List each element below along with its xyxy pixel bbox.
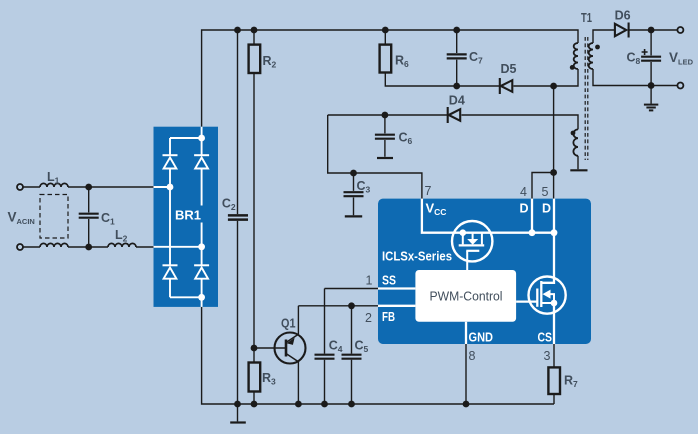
BR1 internals	[154, 127, 210, 307]
svg-text:D: D	[542, 202, 551, 216]
svg-text:SS: SS	[382, 274, 396, 288]
svg-text:GND: GND	[469, 331, 494, 345]
diode D5	[500, 78, 554, 94]
svg-text:3: 3	[544, 349, 551, 363]
node BR1 minus	[198, 294, 205, 301]
node Q1 emitter bottom	[295, 401, 302, 408]
BR1 label	[173, 206, 204, 223]
transformer T1 primary	[554, 43, 578, 86]
node C3 top	[350, 170, 357, 177]
node pin4 bus	[529, 229, 536, 236]
node C2 bottom	[234, 401, 241, 408]
IC internal white wiring	[378, 199, 554, 344]
wire BR1 AC1 stub	[154, 186, 171, 188]
capacitor C7	[447, 30, 467, 86]
node Q1 base	[251, 345, 258, 352]
inductor L1 second winding	[40, 243, 68, 247]
wire GND pin	[465, 344, 467, 404]
svg-text:FB: FB	[382, 310, 395, 324]
capacitor C6	[375, 115, 395, 158]
wire BR1 top connector	[170, 137, 202, 139]
ground C8	[644, 86, 658, 111]
wire drain vertical	[553, 86, 555, 199]
diode BR1 top-left	[163, 155, 178, 168]
wire SS internal	[378, 287, 415, 289]
diode D4	[448, 107, 461, 123]
node C6 top	[382, 112, 389, 119]
svg-text:4: 4	[520, 185, 527, 199]
wire VCC loop	[328, 115, 422, 199]
svg-text:D6: D6	[615, 9, 631, 23]
terminal VLED plus	[677, 27, 683, 33]
transformer T1 auxiliary winding	[573, 129, 578, 169]
transistor Q1	[254, 306, 306, 404]
node C1 top	[85, 184, 92, 191]
wire CS pin	[553, 344, 555, 404]
svg-text:PWM-Control: PWM-Control	[430, 289, 503, 304]
svg-text:7: 7	[425, 184, 432, 198]
svg-text:CS: CS	[538, 331, 553, 345]
bridge rectifier BR1 box	[154, 127, 219, 307]
svg-text:2: 2	[365, 311, 372, 325]
node R3 bottom	[251, 401, 258, 408]
svg-text:D: D	[520, 202, 529, 216]
node R6 top	[382, 27, 389, 34]
node BR1 AC1	[167, 184, 174, 191]
resistor R3	[249, 348, 261, 404]
node R2 top	[251, 27, 258, 34]
node C2 top	[234, 27, 241, 34]
transformer T1 core	[585, 37, 588, 160]
diode BR1 bottom-left	[163, 265, 178, 278]
capacitor C8	[641, 30, 661, 86]
svg-text:5: 5	[542, 185, 549, 199]
transistor power MOSFET	[516, 277, 566, 314]
PWM-Control block	[415, 270, 516, 322]
node C7 bottom	[453, 83, 460, 90]
node C5 bottom	[348, 401, 355, 408]
resistor R2	[249, 30, 261, 348]
svg-text:D5: D5	[501, 62, 517, 76]
wire pin5 internal	[553, 199, 555, 233]
node C1 bottom	[85, 244, 92, 251]
node GND pin rail	[463, 401, 470, 408]
inductor L1	[40, 183, 68, 187]
svg-text:1: 1	[366, 274, 373, 288]
capacitor C3	[344, 173, 364, 216]
op-amp U1 startup cell	[452, 221, 492, 270]
wire pin4 internal	[531, 199, 533, 233]
diode D6	[615, 23, 677, 38]
wire FB	[298, 305, 378, 307]
T1 secondary phase dot	[595, 45, 600, 50]
wire BR1 bottom connector	[170, 296, 202, 298]
wire D4 row	[328, 115, 578, 129]
wire BR1 AC2 line	[154, 246, 202, 248]
svg-text:ICLSx-Series: ICLSx-Series	[382, 249, 452, 264]
capacitor C5	[342, 306, 362, 404]
wire ACIN top	[23, 186, 153, 188]
node drain branch	[550, 169, 557, 176]
terminal VLED minus	[677, 83, 683, 89]
T1 aux phase dot	[571, 131, 576, 136]
capacitor C2	[228, 30, 248, 404]
wire ACIN bottom	[23, 246, 153, 248]
diode BR1 bottom-right	[194, 265, 209, 278]
terminal ACIN bottom	[17, 244, 23, 250]
capacitor C1	[79, 187, 99, 247]
resistor R6	[380, 30, 499, 86]
transformer T1 secondary	[589, 30, 678, 86]
capacitor C4	[315, 355, 335, 404]
choke coupling dashed box	[40, 195, 68, 239]
svg-text:D4: D4	[449, 94, 465, 108]
node BR1 AC2	[198, 243, 205, 250]
wire bottom rail	[202, 307, 554, 404]
wire top rail	[202, 30, 578, 127]
svg-text:BR1: BR1	[175, 208, 201, 223]
resistor R7	[548, 367, 560, 394]
wire pin4 branch	[532, 173, 554, 199]
wire BR1 left column	[169, 138, 171, 297]
wire GND internal	[465, 322, 467, 344]
diode BR1 top-right	[194, 155, 209, 168]
wire drain internal	[541, 233, 554, 283]
node startup cell left	[460, 229, 467, 236]
wire FB internal	[378, 305, 415, 307]
ground aux winding	[570, 169, 587, 171]
node C7 top	[453, 27, 460, 34]
inductor L2	[108, 243, 136, 247]
ground below rail	[230, 404, 246, 423]
wire VCC internal	[422, 199, 554, 233]
node MOSFET source	[551, 300, 558, 307]
node pin5 bus	[551, 229, 558, 236]
node C8 bottom	[648, 82, 655, 89]
wire SS	[325, 289, 379, 354]
node C5 top	[348, 302, 355, 309]
node C8 top	[648, 27, 655, 34]
svg-text:Q1: Q1	[281, 317, 296, 331]
IC ICLSx-Series box	[378, 199, 591, 344]
node BR1 plus	[198, 135, 205, 142]
terminal ACIN top	[17, 184, 23, 190]
wire BR1 right column	[201, 127, 203, 307]
svg-text:8: 8	[469, 349, 476, 363]
svg-text:T1: T1	[581, 11, 592, 25]
wire CS internal	[553, 303, 555, 344]
node C4 bottom	[321, 401, 328, 408]
T1 primary phase dot	[570, 65, 575, 70]
node drain top	[550, 83, 557, 90]
